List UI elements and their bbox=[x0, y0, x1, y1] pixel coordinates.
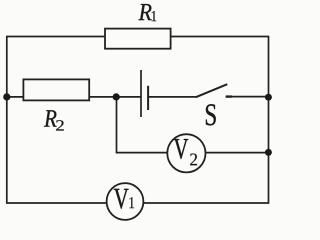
junction dot: left wall / middle branch bbox=[3, 93, 10, 100]
label V2 bbox=[174, 139, 188, 159]
battery cell: short plate (right) bbox=[147, 86, 149, 110]
resistor R2 bbox=[23, 79, 89, 100]
wire: right side of outer loop bbox=[268, 36, 270, 204]
wire: top side of outer loop bbox=[7, 36, 269, 38]
resistor R1 bbox=[105, 29, 171, 49]
wire: middle branch from left wall through R2 to battery bbox=[7, 96, 141, 98]
voltmeter V1 bbox=[107, 183, 144, 220]
switch S blade (open diagonal) bbox=[196, 84, 228, 97]
label R1 bbox=[138, 4, 151, 20]
label V1 bbox=[114, 189, 129, 209]
wire: switch to right wall bbox=[226, 96, 269, 98]
junction dot: right wall / V2 branch bbox=[265, 149, 272, 156]
label S bbox=[206, 104, 216, 125]
wire: bottom side of outer loop bbox=[7, 202, 269, 204]
battery cell: long plate (left) bbox=[140, 70, 142, 117]
junction dot: right wall / switch branch bbox=[265, 94, 272, 101]
wire: battery to switch bbox=[148, 96, 196, 98]
voltmeter V2 bbox=[167, 134, 205, 172]
wire: vertical drop from middle-branch junction bbox=[116, 97, 118, 153]
junction dot: middle branch / V2 drop bbox=[113, 93, 120, 100]
label R2 bbox=[44, 110, 57, 126]
wire: left side of outer loop bbox=[6, 36, 8, 204]
wire: horizontal to voltmeter V2 bbox=[116, 152, 168, 154]
wire: voltmeter V2 to right wall bbox=[205, 152, 269, 154]
